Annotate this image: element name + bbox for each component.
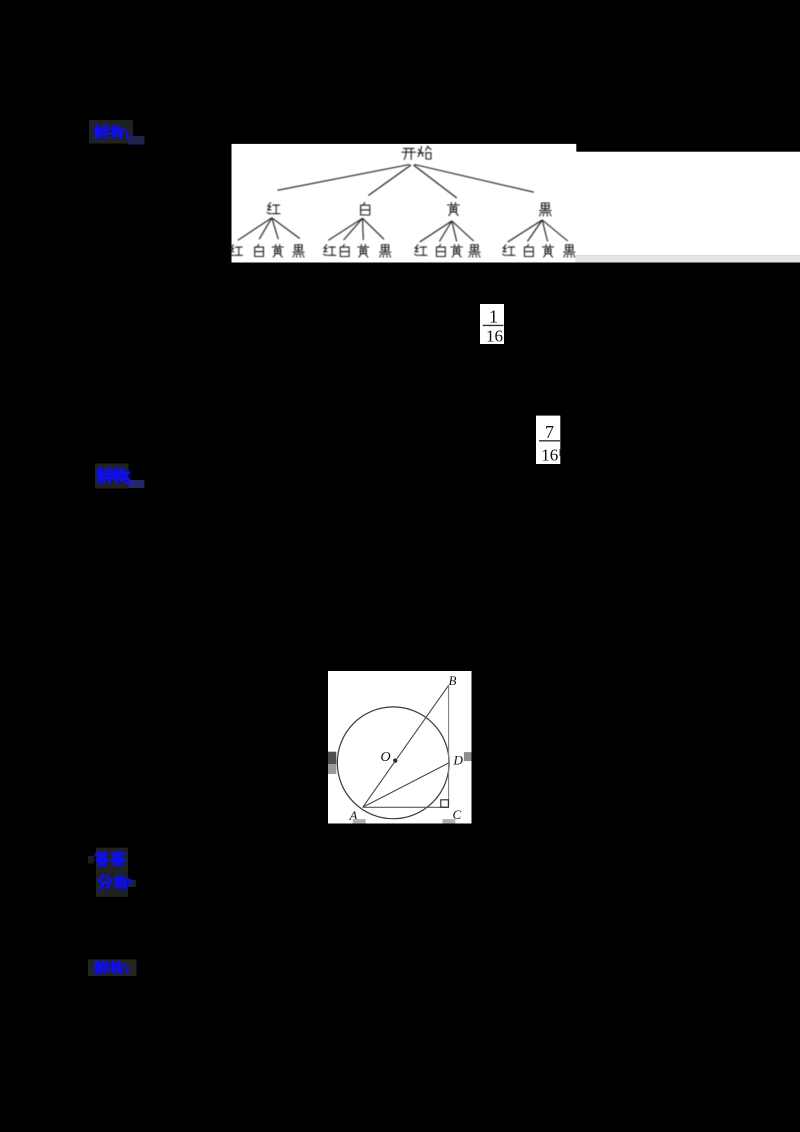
fan under 黄 [420,221,452,242]
branch root to 红 [278,165,410,191]
fraction 1/16 bar [483,324,504,326]
level1 node 红 [267,203,280,214]
level1 node 白 [361,202,370,215]
label 3 text 答案 (blue) [96,852,125,866]
label block 2 navy fragment [129,480,145,488]
tick right of 16 [560,449,562,456]
svg-text:7: 7 [545,422,554,442]
branch root to 黑 [415,165,534,193]
leaf row under 白 [323,244,390,257]
tree root 开始 [402,148,415,159]
svg-text:B: B [449,673,457,688]
fan under 白 [328,218,362,240]
line A-B [363,685,449,807]
fraction 7/16 bar [539,440,560,442]
backing left bit [88,856,94,864]
leaf row under 黑 [503,244,575,257]
svg-text:O: O [381,750,391,765]
gray strip under right panel [575,256,800,263]
fan under 黑 [508,220,543,242]
fraction box 1/16 panel [480,304,504,344]
label 4 text 分析: (blue) [99,876,131,889]
line A-D [363,763,449,807]
svg-text:16: 16 [541,446,558,465]
label 2 text 解析, (blue) [98,468,130,483]
line B-C vertical [448,685,450,807]
label 5 text 解析, (blue) [95,961,127,973]
leaf row under 黄 [415,244,480,257]
label block 2 backing [95,464,129,489]
branch root to 白 [368,165,411,196]
branch root to 黄 [414,165,457,198]
svg-text:D: D [453,753,464,768]
label block 1 backing [89,120,133,144]
right angle mark at C [441,800,449,807]
artifact bottom left [353,819,366,823]
label block 1 navy fragment [128,136,145,145]
right highlight panel (white) [575,152,800,256]
fraction box 7/16 panel [536,416,560,464]
backing right bit [128,880,136,887]
svg-text:1: 1 [489,307,498,327]
label 1 text 解析, (blue) [95,126,128,138]
line A-C [363,806,449,808]
artifact left light [328,764,336,774]
artifact right [464,752,472,761]
label block 5 backing [88,959,136,976]
artifact bottom right [443,819,456,823]
center dot [393,759,397,763]
level1 node 黑 [540,203,552,216]
geometry figure panel [328,671,472,824]
circle O [337,707,449,819]
level1 node 黄 [448,203,460,216]
svg-text:16: 16 [486,327,503,346]
tree panel (white) [232,144,577,263]
leaf row under 红 [230,244,304,257]
fan under 红 [238,218,272,241]
artifact left dark [328,752,336,764]
label block 3/4 backing [96,848,128,897]
